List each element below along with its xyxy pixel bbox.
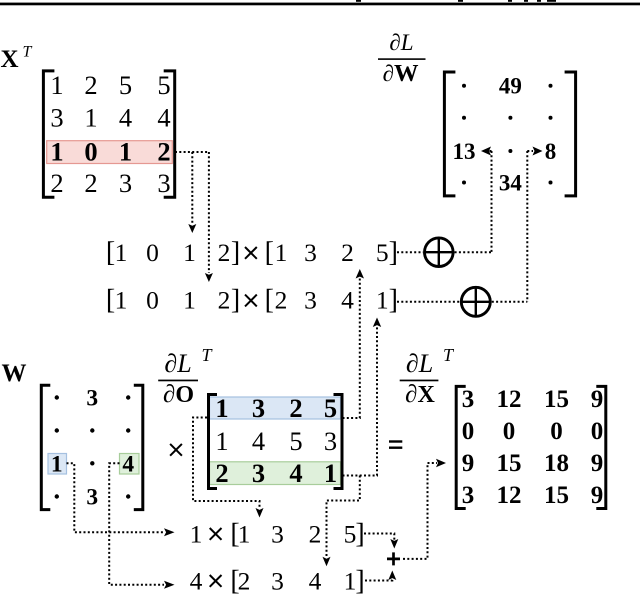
- svg-text:49: 49: [499, 74, 522, 99]
- expression 1 x [1 3 2 5]: [190, 518, 365, 549]
- wire 1x row to plus: [364, 534, 398, 549]
- svg-text:12: 12: [497, 482, 522, 509]
- svg-text:4: 4: [309, 566, 322, 595]
- svg-text:0: 0: [591, 418, 604, 445]
- svg-text:2: 2: [238, 566, 251, 595]
- svg-text:5: 5: [324, 393, 337, 423]
- label dL/dX^T: [400, 345, 455, 408]
- svg-text:3: 3: [462, 386, 475, 413]
- svg-text:3: 3: [304, 238, 317, 267]
- svg-text:3: 3: [252, 458, 265, 488]
- svg-text:8: 8: [545, 139, 557, 164]
- svg-text:]: ]: [389, 237, 398, 268]
- wire from X^T row (horizontal): [175, 151, 209, 153]
- svg-text:3: 3: [324, 426, 337, 456]
- svg-text:3: 3: [86, 386, 98, 412]
- highlight green row 3 of dL/dO: [210, 462, 341, 485]
- svg-text:2: 2: [84, 168, 97, 198]
- svg-text:]: ]: [389, 285, 398, 316]
- highlight blue row 1 of dL/dO: [210, 397, 341, 419]
- svg-text:4: 4: [252, 426, 265, 456]
- label dL/dW: [378, 30, 426, 87]
- wire plus to dL/dX row 3: [403, 459, 446, 559]
- wire blue row to 1x vector: [193, 418, 264, 518]
- svg-text:4: 4: [190, 566, 203, 595]
- svg-text:3: 3: [157, 168, 170, 198]
- svg-text:1: 1: [115, 238, 128, 267]
- wire green row to 4x vector: [323, 476, 360, 567]
- svg-text:4: 4: [122, 451, 134, 477]
- svg-text:9: 9: [591, 386, 604, 413]
- svg-text:3: 3: [50, 103, 63, 133]
- svg-text:5: 5: [119, 70, 132, 100]
- expression row 1: [1 0 1 2] x [1 3 2 5]: [106, 237, 398, 268]
- wire arrow into 8: [527, 147, 542, 156]
- svg-text:1: 1: [183, 286, 196, 315]
- svg-text:4: 4: [119, 103, 132, 133]
- svg-text:2: 2: [275, 286, 288, 315]
- expression 4 x [2 3 4 1]: [190, 565, 365, 596]
- wire vertical from oplus2 up to dL/dW: [526, 151, 528, 302]
- svg-text:12: 12: [497, 386, 522, 413]
- svg-text:∂X: ∂X: [405, 381, 435, 408]
- equals operator: [389, 440, 402, 449]
- svg-text:3: 3: [271, 519, 284, 548]
- svg-text:2: 2: [215, 458, 228, 488]
- svg-text:5: 5: [289, 426, 302, 456]
- svg-text:1: 1: [324, 458, 337, 488]
- wire arrow into expression row 1: [188, 152, 196, 233]
- svg-text:W: W: [2, 360, 27, 387]
- svg-text:0: 0: [146, 286, 159, 315]
- wire expr1 to oplus1: [397, 251, 423, 253]
- plus operator: [387, 552, 400, 565]
- svg-text:1: 1: [344, 566, 357, 595]
- svg-text:4: 4: [157, 103, 170, 133]
- matrix dL/dW: [444, 72, 575, 196]
- svg-text:2: 2: [218, 238, 231, 267]
- svg-text:5: 5: [376, 238, 389, 267]
- svg-text:∂W: ∂W: [383, 60, 419, 87]
- svg-text:4: 4: [341, 286, 354, 315]
- svg-text:15: 15: [544, 386, 569, 413]
- oplus adder 1: [425, 238, 454, 267]
- svg-text:0: 0: [550, 418, 563, 445]
- svg-text:[: [: [265, 285, 274, 316]
- svg-text:]: ]: [355, 565, 364, 596]
- svg-text:1: 1: [215, 393, 228, 423]
- svg-text:1: 1: [190, 519, 203, 548]
- svg-text:0: 0: [462, 418, 475, 445]
- svg-text:15: 15: [544, 482, 569, 509]
- svg-text:34: 34: [499, 170, 523, 195]
- wire oplus1 to vertical: [455, 251, 492, 253]
- svg-text:2: 2: [309, 519, 322, 548]
- label X^T: [1, 44, 33, 74]
- wire vertical from oplus1 up to dL/dW: [491, 151, 493, 252]
- svg-text:]: ]: [231, 237, 240, 268]
- matrix dL/dX^T: [456, 386, 606, 509]
- wire expr2 to oplus2: [397, 301, 460, 303]
- svg-text:1: 1: [183, 238, 196, 267]
- svg-text:1: 1: [50, 70, 63, 100]
- label dL/dO^T: [158, 345, 213, 408]
- svg-text:∂L: ∂L: [164, 349, 191, 378]
- matrix dL/dO^T: [209, 393, 343, 488]
- svg-text:1: 1: [215, 426, 228, 456]
- svg-text:9: 9: [591, 482, 604, 509]
- svg-text:5: 5: [157, 70, 170, 100]
- wire green row up to expr2: [343, 318, 382, 476]
- svg-text:18: 18: [544, 450, 569, 477]
- svg-text:1: 1: [376, 286, 389, 315]
- svg-text:∂L: ∂L: [389, 30, 413, 55]
- oplus adder 2: [461, 287, 490, 316]
- label W: [2, 360, 27, 387]
- svg-text:2: 2: [84, 70, 97, 100]
- svg-text:3: 3: [304, 286, 317, 315]
- svg-text:1: 1: [275, 238, 288, 267]
- wire green W cell to 4x row: [109, 463, 174, 588]
- highlight blue cell W(3,1): [48, 454, 67, 475]
- svg-text:15: 15: [497, 450, 522, 477]
- svg-text:3: 3: [462, 482, 475, 509]
- svg-text:]: ]: [231, 285, 240, 316]
- svg-text:∂O: ∂O: [163, 381, 194, 408]
- svg-text:5: 5: [344, 519, 357, 548]
- svg-text:9: 9: [591, 450, 604, 477]
- svg-text:∂L: ∂L: [406, 349, 433, 378]
- wire arrow into 13: [481, 147, 492, 156]
- svg-text:2: 2: [218, 286, 231, 315]
- svg-text:]: ]: [355, 518, 364, 549]
- svg-text:1: 1: [51, 451, 63, 477]
- svg-text:9: 9: [462, 450, 475, 477]
- highlight pink row 3 of X^T: [47, 141, 173, 164]
- wire blue row up to expr1: [343, 269, 365, 418]
- svg-text:X: X: [1, 46, 19, 73]
- expression row 2: [1 0 1 2] x [2 3 4 1]: [106, 285, 398, 316]
- times operator between W and dL/dO: [170, 444, 182, 456]
- svg-text:3: 3: [271, 566, 284, 595]
- svg-text:1: 1: [84, 103, 97, 133]
- horizontal rule of page header: [0, 0, 640, 5]
- matrix W: [41, 385, 143, 510]
- wire oplus2 to vertical: [492, 301, 528, 303]
- svg-text:0: 0: [146, 238, 159, 267]
- wire blue W cell to 1x row: [67, 463, 175, 536]
- svg-text:2: 2: [341, 238, 354, 267]
- svg-text:3: 3: [252, 393, 265, 423]
- svg-text:1: 1: [115, 286, 128, 315]
- svg-text:2: 2: [289, 393, 302, 423]
- svg-text:[: [: [265, 237, 274, 268]
- highlight green cell W(3,3): [120, 454, 140, 475]
- svg-text:0: 0: [503, 418, 516, 445]
- svg-text:4: 4: [289, 458, 302, 488]
- svg-text:2: 2: [157, 136, 170, 166]
- wire 4x row to plus: [365, 571, 396, 581]
- svg-text:1: 1: [238, 519, 251, 548]
- svg-text:0: 0: [84, 136, 97, 166]
- svg-text:3: 3: [119, 168, 132, 198]
- svg-text:3: 3: [86, 485, 98, 511]
- svg-text:2: 2: [50, 168, 63, 198]
- svg-text:1: 1: [119, 136, 132, 166]
- wire arrow into expression row 2: [205, 152, 213, 282]
- svg-text:13: 13: [453, 139, 476, 164]
- matrix X^T: [43, 70, 174, 198]
- svg-text:1: 1: [50, 136, 63, 166]
- svg-text:T: T: [23, 44, 33, 61]
